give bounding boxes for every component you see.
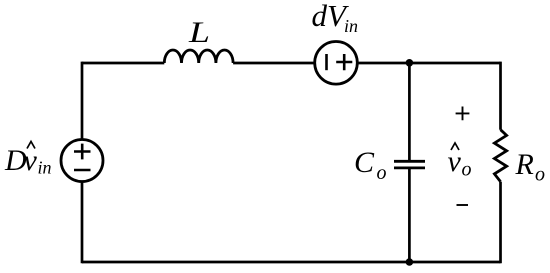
wire inductor to source dVin xyxy=(233,62,315,65)
svg-text:R: R xyxy=(515,148,534,181)
voltage source dVin circle U2 xyxy=(315,42,358,85)
svg-text:o: o xyxy=(462,159,472,181)
svg-text:v: v xyxy=(448,145,462,178)
voltage source Dvin circle U1 xyxy=(61,140,103,182)
wire right vertical lower xyxy=(499,182,502,264)
source Dvin plus sign xyxy=(74,144,91,160)
svg-text:o: o xyxy=(377,162,387,184)
wire capacitor branch upper xyxy=(408,63,411,161)
label minus (output polarity) xyxy=(457,204,469,206)
wire bottom horizontal xyxy=(82,261,501,264)
wire source dVin to top-right corner xyxy=(357,62,500,65)
svg-text:L: L xyxy=(188,16,210,49)
capacitor Co plates xyxy=(394,161,425,168)
wire left vertical upper xyxy=(81,62,84,140)
svg-text:in: in xyxy=(344,16,358,36)
wire right vertical upper xyxy=(499,62,502,130)
resistor Ro zigzag xyxy=(494,130,506,182)
wire top-left horizontal xyxy=(82,62,164,65)
source Dvin minus sign xyxy=(74,169,91,172)
svg-text:o: o xyxy=(535,164,545,186)
inductor L xyxy=(164,50,233,63)
wire left vertical lower xyxy=(81,182,84,264)
source dVin plus sign xyxy=(336,54,352,70)
node dot top (capacitor tap) xyxy=(406,59,414,67)
node dot bottom (capacitor tap) xyxy=(406,258,414,266)
svg-text:in: in xyxy=(38,158,52,178)
source dVin minus bar xyxy=(325,54,328,70)
label plus (output polarity) xyxy=(456,107,470,121)
wire capacitor branch lower xyxy=(408,168,411,262)
svg-text:v: v xyxy=(24,144,38,177)
svg-text:C: C xyxy=(354,146,375,179)
